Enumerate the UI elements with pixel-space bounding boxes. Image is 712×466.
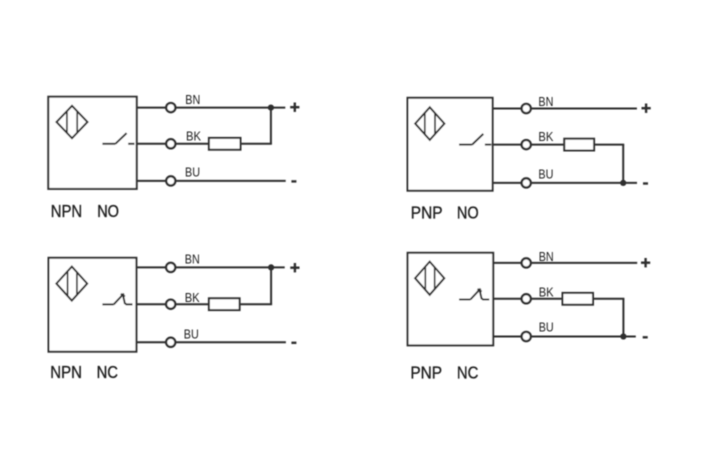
terminal circle BN PNP NC (522, 258, 531, 267)
proximity sensor diamond symbol PNP NC (415, 262, 444, 295)
junction dot NPN NO (268, 105, 274, 111)
wire BK PNP NC (load to link) (593, 298, 624, 300)
wire BK PNP NC (sensor to load) (492, 298, 562, 300)
wire BK NPN NO (sensor to load) (136, 143, 209, 145)
terminal circle BK NPN NC (166, 300, 175, 309)
wire link PNP NC (load down to BU -) (622, 299, 624, 337)
proximity sensor diamond symbol PNP NO (415, 107, 444, 140)
svg-text:BN: BN (539, 250, 554, 264)
plus terminal NPN NO (290, 103, 299, 112)
svg-text:BU: BU (538, 168, 553, 182)
terminal circle BU PNP NC (522, 332, 531, 341)
terminal circle BU PNP NO (522, 178, 531, 187)
switch contact NO NPN NO (102, 133, 134, 144)
svg-text:BK: BK (186, 129, 202, 143)
junction dot PNP NO (620, 180, 626, 186)
svg-text:BU: BU (539, 321, 554, 335)
caption PNP NC (410, 363, 478, 383)
resistor load PNP NC (563, 293, 594, 305)
wire link NPN NO (load up to BN +) (270, 108, 272, 144)
wire BN NPN NO (136, 107, 286, 109)
wire BK PNP NO (load to link) (594, 144, 624, 146)
proximity sensor diamond symbol NPN NO (57, 106, 88, 138)
terminal circle BN PNP NO (522, 104, 531, 113)
sensor box NPN NC (49, 258, 137, 352)
svg-text:PNP: PNP (410, 363, 442, 383)
wire BK NPN NC (load to link) (240, 303, 273, 305)
svg-text:NPN: NPN (51, 201, 82, 221)
terminal circle BK PNP NC (522, 294, 531, 303)
svg-text:PNP: PNP (411, 203, 443, 223)
junction dot PNP NC (620, 333, 626, 339)
minus terminal PNP NC (643, 336, 648, 338)
wire BN PNP NO (492, 108, 637, 110)
svg-text:BU: BU (185, 166, 200, 180)
wire BU NPN NO (136, 180, 286, 182)
terminal circle BN NPN NO (166, 103, 175, 112)
plus terminal PNP NO (642, 104, 651, 113)
wire BU PNP NO (492, 182, 637, 184)
wire BK PNP NO (sensor to load) (492, 144, 565, 146)
resistor load NPN NO (209, 138, 241, 150)
svg-text:NC: NC (457, 363, 479, 383)
wire BK NPN NC (sensor to load) (135, 303, 209, 305)
junction dot NPN NC (268, 264, 274, 270)
svg-text:NC: NC (97, 362, 118, 382)
wire BN PNP NC (492, 262, 637, 264)
minus terminal NPN NC (291, 342, 296, 344)
terminal circle BK NPN NO (166, 139, 175, 148)
caption NPN NC (50, 362, 118, 382)
terminal circle BU NPN NC (166, 338, 175, 347)
wire BU PNP NC (492, 336, 636, 338)
svg-text:BK: BK (538, 130, 554, 144)
proximity sensor diamond symbol NPN NC (56, 267, 87, 301)
switch contact NO PNP NO (459, 134, 491, 145)
plus terminal NPN NC (290, 263, 299, 272)
svg-text:BK: BK (185, 291, 201, 305)
sensor box NPN NO (48, 97, 136, 189)
svg-text:NO: NO (457, 203, 479, 223)
resistor load NPN NC (209, 298, 240, 310)
svg-text:BN: BN (538, 95, 553, 109)
terminal circle BK PNP NO (522, 140, 531, 149)
switch contact NC NPN NC (102, 294, 132, 305)
terminal circle BU NPN NO (166, 176, 175, 185)
svg-text:BN: BN (185, 253, 200, 267)
sensor box PNP NC (408, 253, 494, 346)
svg-text:BU: BU (184, 328, 199, 342)
wire link PNP NO (load down to BU -) (622, 145, 624, 183)
plus terminal PNP NC (641, 258, 650, 267)
wire BU NPN NC (135, 341, 286, 343)
minus terminal PNP NO (643, 182, 648, 184)
sensor box PNP NO (408, 98, 493, 191)
resistor load PNP NO (564, 139, 594, 151)
svg-text:NO: NO (97, 201, 119, 221)
wire BK NPN NO (load to link) (241, 143, 272, 145)
svg-text:NPN: NPN (50, 362, 82, 382)
minus terminal NPN NO (291, 180, 296, 182)
caption PNP NO (411, 203, 479, 223)
terminal circle BN NPN NC (166, 263, 175, 272)
wire BN NPN NC (135, 266, 284, 268)
wire link NPN NC (load up to BN +) (270, 267, 272, 304)
svg-text:BK: BK (539, 286, 555, 300)
caption NPN NO (51, 201, 119, 221)
svg-text:BN: BN (185, 93, 200, 107)
switch contact NC PNP NC (459, 289, 489, 300)
